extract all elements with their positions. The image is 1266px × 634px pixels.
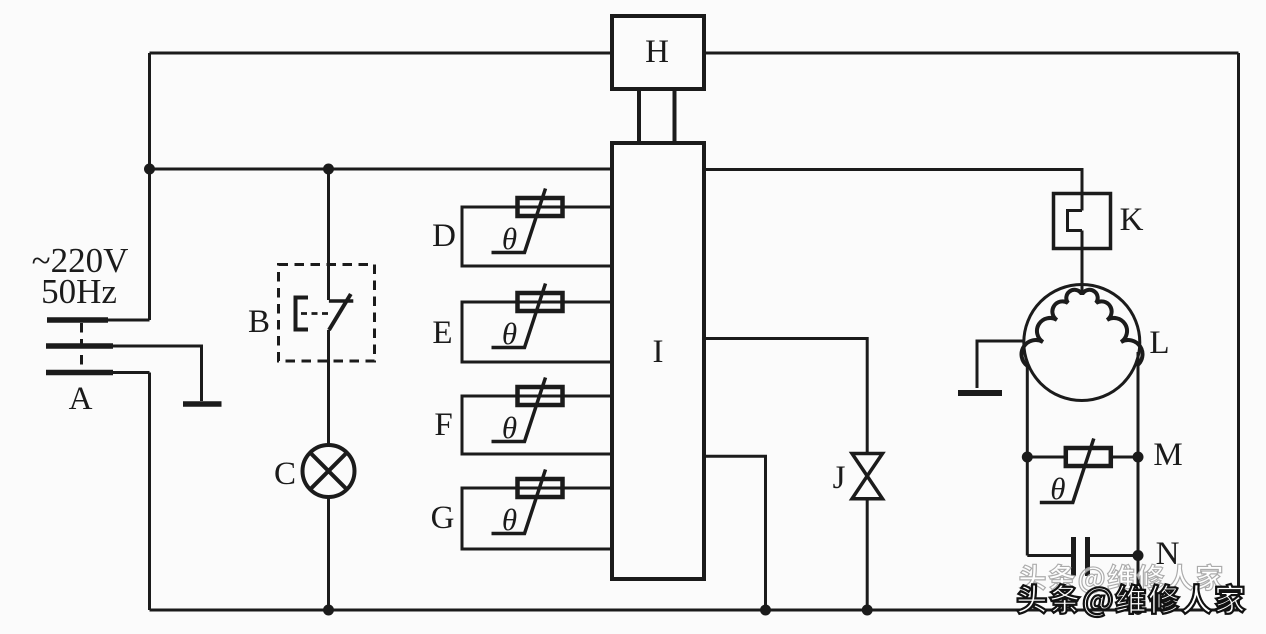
sensor branch G loop bbox=[462, 488, 612, 549]
wire: branch B upper bbox=[327, 169, 330, 300]
motor L casing circle bbox=[1024, 285, 1140, 401]
thermistor D bbox=[492, 189, 563, 257]
wire: top rail right segment bbox=[704, 52, 1239, 55]
wire: middle prong to ground bbox=[113, 346, 202, 401]
svg-text:θ: θ bbox=[502, 316, 517, 351]
wire: N row left bbox=[1027, 554, 1071, 557]
svg-text:I: I bbox=[653, 334, 664, 370]
overload protector K box bbox=[1054, 194, 1111, 249]
svg-text:F: F bbox=[434, 407, 452, 443]
wire: motor right terminal down bbox=[1137, 352, 1140, 610]
wire: K to motor bbox=[1081, 231, 1084, 295]
svg-text:B: B bbox=[248, 304, 270, 340]
node junction lamp branch bottom bbox=[323, 605, 334, 616]
thermistor G bbox=[492, 470, 563, 538]
connector H-I right bbox=[673, 89, 677, 143]
ground symbol (mains side) bbox=[183, 401, 222, 407]
valve J lower triangle bbox=[852, 476, 883, 499]
wire: branch B lower bbox=[327, 330, 330, 445]
switch B actuator dashed link bbox=[301, 312, 332, 315]
svg-text:J: J bbox=[833, 460, 846, 496]
display unit H box bbox=[612, 16, 704, 89]
capacitor N right plate bbox=[1085, 537, 1090, 576]
svg-text:L: L bbox=[1149, 325, 1169, 361]
wire: I to overload protector K bbox=[704, 170, 1082, 211]
node junction I branch bottom bbox=[760, 605, 771, 616]
node junction at left rail bbox=[144, 164, 155, 175]
switch B fixed contact bar bbox=[329, 299, 353, 303]
wire: motor left terminal down bbox=[1026, 363, 1029, 556]
capacitor N left plate bbox=[1071, 537, 1076, 576]
motor L winding bbox=[1021, 290, 1142, 366]
svg-text:θ: θ bbox=[502, 502, 517, 537]
switch B manual actuator bbox=[296, 298, 309, 330]
wire: right side vertical rail bbox=[1237, 53, 1240, 610]
wire: M row right bbox=[1110, 456, 1138, 459]
ground symbol (motor side) bbox=[958, 390, 1002, 396]
svg-text:G: G bbox=[431, 500, 455, 536]
node junction valve branch bottom bbox=[862, 605, 873, 616]
power plug A top prong bbox=[47, 317, 108, 323]
power plug A middle prong bbox=[46, 343, 113, 349]
svg-text:K: K bbox=[1120, 202, 1144, 238]
svg-text:D: D bbox=[432, 218, 456, 254]
wire: valve J to bottom rail bbox=[866, 499, 869, 610]
wire: I to bottom rail bbox=[704, 456, 766, 610]
wire: bottom prong to left rail bbox=[113, 371, 150, 374]
node junction at lamp branch top bbox=[323, 164, 334, 175]
node M right junction bbox=[1133, 452, 1144, 463]
svg-text:A: A bbox=[69, 381, 93, 417]
svg-text:H: H bbox=[645, 34, 669, 70]
svg-text:50Hz: 50Hz bbox=[41, 272, 117, 311]
overload protector K bimetal element bbox=[1068, 211, 1083, 231]
thermistor E bbox=[492, 284, 563, 352]
wire: N row right bbox=[1090, 554, 1138, 557]
svg-text:M: M bbox=[1153, 437, 1182, 473]
switch B blade bbox=[329, 294, 351, 330]
wire: motor to ground bbox=[977, 341, 1024, 388]
svg-text:θ: θ bbox=[502, 221, 517, 256]
switch B dashed enclosure bbox=[279, 265, 375, 362]
wire: bottom rail bbox=[150, 609, 1239, 612]
wire: M row left bbox=[1027, 456, 1066, 459]
sensor branch F loop bbox=[462, 396, 612, 454]
controller I box bbox=[612, 143, 704, 579]
thermistor F bbox=[492, 378, 563, 446]
node N junction bbox=[1133, 550, 1144, 561]
wire: I to valve J bbox=[704, 339, 867, 454]
svg-text:C: C bbox=[274, 456, 296, 492]
watermark lower line bbox=[1017, 584, 1245, 617]
wire: second rail to controller I bbox=[150, 168, 613, 171]
node M left junction bbox=[1022, 452, 1033, 463]
valve J upper triangle bbox=[852, 454, 883, 477]
power plug A dashed link bbox=[80, 323, 83, 370]
watermark upper line bbox=[1020, 564, 1223, 593]
svg-text:E: E bbox=[432, 315, 452, 351]
svg-text:θ: θ bbox=[1050, 471, 1065, 506]
lamp C cross bbox=[311, 453, 347, 489]
wire: lamp C to bottom rail bbox=[327, 497, 330, 610]
wire: top prong to left rail bbox=[108, 319, 150, 322]
wire: top rail left segment bbox=[150, 52, 613, 55]
sensor branch E loop bbox=[462, 302, 612, 362]
power plug A bottom prong bbox=[46, 370, 113, 376]
wire: left vertical rail lower bbox=[148, 373, 151, 611]
wire: left vertical rail upper bbox=[148, 53, 151, 320]
svg-text:θ: θ bbox=[502, 410, 517, 445]
lamp C circle bbox=[303, 445, 355, 497]
sensor branch D loop bbox=[462, 207, 612, 266]
connector H-I left bbox=[637, 89, 641, 143]
node junction N branch bottom bbox=[1133, 605, 1143, 615]
thermistor M bbox=[1040, 439, 1111, 507]
